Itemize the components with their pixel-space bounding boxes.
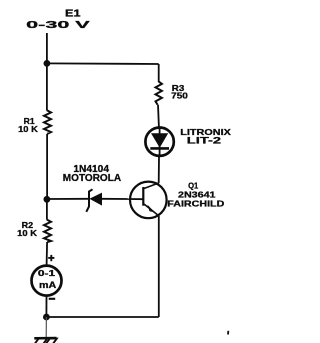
wire meter to node C: [45, 296, 47, 317]
resistor R1: [44, 110, 51, 134]
ground symbol: [34, 338, 57, 343]
zener diode D1 triangle: [89, 193, 102, 206]
wire R2 to meter: [46, 242, 49, 265]
wire R3 to LED: [157, 105, 160, 127]
svg-text:LIT-2: LIT-2: [187, 135, 221, 145]
wire through LED: [159, 127, 161, 157]
transistor Q1 collector line: [143, 183, 158, 189]
zener diode D1 1N4104 cathode bar: [86, 189, 92, 212]
wire top horizontal: [47, 62, 159, 65]
node B junction dot: [44, 196, 51, 203]
minus sign label: [49, 298, 56, 300]
svg-text:E1: E1: [65, 9, 81, 20]
transistor Q1 emitter arrow: [148, 205, 155, 213]
resistor R3: [156, 82, 162, 105]
wire E1 terminal stub: [46, 33, 48, 63]
wire R1 to node B: [46, 134, 48, 200]
svg-text:0-1: 0-1: [38, 268, 56, 278]
resistor R2: [44, 220, 51, 242]
wire zener to Q1 base: [102, 198, 131, 200]
stray mark bottom right: [227, 331, 229, 335]
transistor Q1 emitter line: [143, 204, 159, 216]
svg-text:MOTOROLA: MOTOROLA: [63, 173, 122, 184]
svg-text:750: 750: [171, 91, 188, 101]
svg-text:0-30 V: 0-30 V: [26, 19, 89, 31]
node C junction dot: [43, 314, 50, 321]
svg-text:10 K: 10 K: [17, 228, 38, 238]
wire LED to Q1 collector: [158, 157, 160, 184]
plus sign label: [48, 257, 54, 259]
transistor Q1 base bar: [142, 187, 144, 206]
wire left vertical node A to R1: [46, 63, 48, 110]
wire node B to zener: [47, 198, 88, 200]
LED DS1 cathode bar: [150, 147, 169, 150]
wire node C to ground: [45, 317, 47, 338]
transistor Q1 circle: [130, 182, 167, 219]
wire right vertical to R3: [158, 64, 160, 82]
node A junction dot: [44, 60, 51, 67]
transistor Q1 base wire inside: [129, 198, 143, 200]
wire node B to R2: [46, 199, 48, 219]
meter M1 circle: [32, 266, 62, 296]
wire right vertical emitter to bottom: [158, 216, 160, 317]
svg-text:10 K: 10 K: [18, 124, 39, 134]
svg-text:mA: mA: [39, 280, 56, 291]
LED DS1 triangle: [151, 133, 168, 148]
svg-text:FAIRCHILD: FAIRCHILD: [167, 199, 224, 209]
LED DS1 circle: [145, 128, 173, 156]
wire bottom horizontal: [46, 316, 158, 318]
